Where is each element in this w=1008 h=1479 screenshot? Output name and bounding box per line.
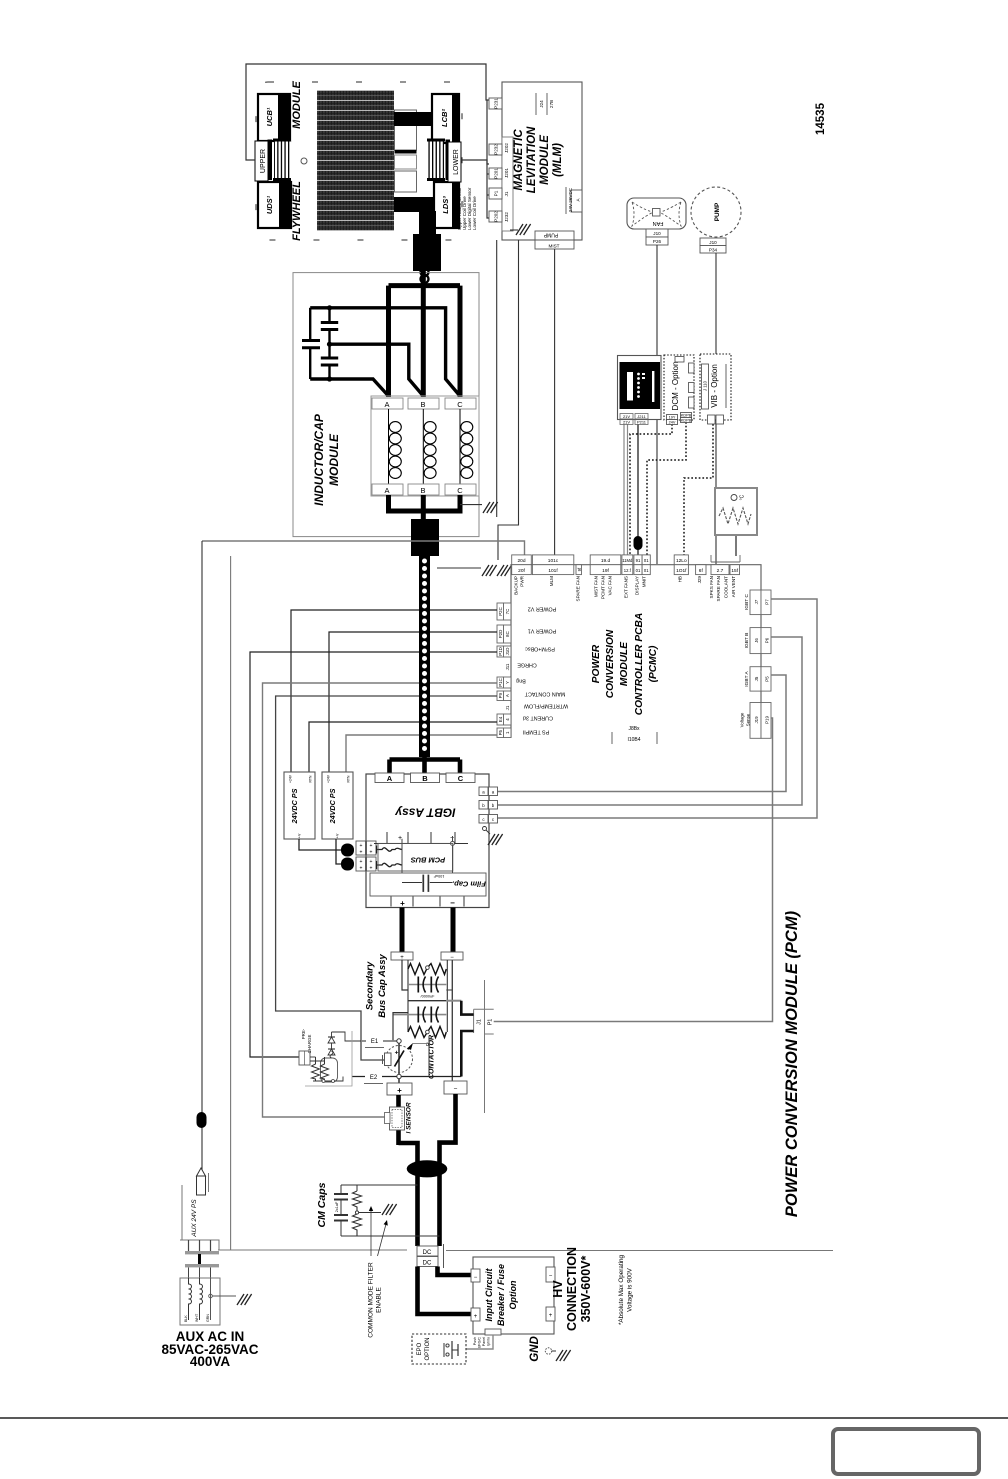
terminal + right [546,1307,555,1321]
gate connector pair a [479,787,498,796]
wire: 24VDC PS1 return [309,722,497,772]
trunk connector block [413,234,441,271]
svg-text:PUMP: PUMP [543,232,558,238]
terminal - right [546,1267,555,1282]
breaker aux pin [485,1329,501,1335]
svg-text:LCB²: LCB² [440,109,449,127]
wire: pump to PCMC [715,253,717,564]
svg-text:P1: P1 [487,1019,493,1026]
DC connector boxes [417,1246,438,1256]
gate connector pair c [479,815,498,824]
right stub IGBT A [750,667,771,691]
svg-text:°C: °C [740,494,746,500]
inline connector blob (display wire) [634,536,643,550]
filter terminal labels [184,1313,210,1322]
wire: UPPER sensor to MLM J231 (top route) [246,64,489,160]
svg-text:BACKUP: BACKUP [514,576,519,595]
24V input connector pair 2 [356,857,376,871]
svg-text:01: 01 [644,568,649,573]
svg-text:WHT: WHT [195,1313,199,1322]
svg-text:KDPB: KDPB [681,419,692,423]
svg-text:E4: E4 [498,716,503,722]
wire: aux pin to EPO [466,1335,493,1349]
svg-text:MODULE: MODULE [327,433,341,486]
top stub J11M [622,555,633,575]
chain link top [421,268,429,276]
MLM box [502,82,582,240]
MLM internal connector column [502,137,513,231]
svg-text:Voltage: Voltage [740,712,745,727]
wire: contactor feed [398,1041,400,1083]
top stub J19 [590,555,621,575]
wire: MLM pump box to PCMC [554,249,556,555]
svg-text:+24V: +24V [289,774,293,783]
svg-text:7C: 7C [505,609,510,615]
svg-text:24VDC PS: 24VDC PS [328,788,337,824]
output terminal + [387,1083,412,1095]
svg-text:J202: J202 [504,143,509,153]
svg-text:+: + [400,899,405,908]
svg-text:−: − [474,1275,478,1281]
E2 stub [352,1076,461,1078]
left stub P1D (precharge) [497,646,511,657]
svg-text:PCM BUS: PCM BUS [411,856,446,865]
svg-text:24V: 24V [669,421,676,425]
svg-text:J11: J11 [505,663,510,670]
cap bank row2 C4 [431,1007,438,1023]
svg-text:101c: 101c [548,558,559,564]
wire: contactor coil drive [276,696,497,1060]
contactor (dashed circle with blade) [386,1046,413,1073]
svg-text:(PCMC): (PCMC) [648,645,659,682]
wire: thermistor to PCMC [735,535,737,556]
cap bank row2 leads [393,1014,446,1016]
wire: phase A to output block [389,495,425,511]
mid rail [408,1000,446,1002]
bus terminal - [441,952,463,960]
bus rail right [446,960,448,1032]
display panel [620,362,661,409]
svg-text:P5: P5 [498,729,503,735]
svg-text:01: 01 [644,558,649,563]
svg-text:SPARE FAN: SPARE FAN [576,576,581,601]
svg-text:PWR: PWR [520,575,525,586]
svg-text:12.f: 12.f [624,568,632,573]
EPO switch [443,1343,445,1357]
MLM stub P201 [489,168,502,179]
display connector stubs [620,414,648,425]
svg-text:PS²M+OBsc: PS²M+OBsc [525,645,555,651]
svg-text:AIR VENT: AIR VENT [731,576,736,597]
svg-text:J24: J24 [539,100,544,108]
plug bar [185,1264,219,1267]
wire: DC- down to breaker [438,1267,474,1276]
contactor coil terminal [385,1053,392,1066]
svg-text:IGBT B: IGBT B [744,633,750,649]
MLM stub P202 [489,211,502,222]
svg-text:P2C: P2C [498,607,503,616]
svg-text:+: + [360,859,363,865]
wire: - output down [440,1094,456,1246]
leader arrows [370,1210,372,1256]
svg-text:21V: 21V [623,420,630,425]
rotor shaft frame lower [395,171,417,192]
svg-text:J1: J1 [504,191,509,196]
rotor shaft mid bar [395,150,417,154]
footer page box [833,1429,979,1474]
UPPER sensor connector label box [255,141,268,181]
right stub IGBT C [750,590,771,615]
svg-text:E1: E1 [371,1039,379,1045]
svg-text:P7: P7 [764,599,769,605]
left stub P9 (contactor) [497,691,511,701]
svg-text:P201: P201 [494,168,499,179]
cm cap column [334,1185,348,1236]
UPPER pin stripes [268,140,273,181]
svg-text:MODULE: MODULE [539,135,551,185]
svg-text:+: + [395,1050,399,1057]
lower coil bus bar (to LDS) [394,197,436,212]
cord pins [188,1268,190,1279]
cap bank row1 leads [408,984,446,986]
svg-text:−: − [450,955,454,961]
svg-text:PRE-: PRE- [301,1028,306,1039]
line filter box [180,1278,220,1325]
bus terminal + [391,952,413,960]
terminal A top [372,398,403,409]
svg-text:RTN: RTN [309,775,313,782]
precharge frame [305,1031,352,1086]
svg-text:CONTACTOR: CONTACTOR [429,1035,436,1079]
svg-text:J6: J6 [754,638,759,643]
svg-text:6f: 6f [699,568,704,574]
svg-text:Y: Y [505,681,510,684]
precharge relay outline [321,1058,338,1082]
svg-text:J10: J10 [653,231,661,236]
wire: precharge drive [250,652,497,1057]
capacitor C1 [321,308,338,344]
wire: DC+ down to breaker [418,1267,474,1315]
wire: DCM option dotted 1 [630,424,672,555]
svg-text:COOLANT: COOLANT [724,576,729,598]
bleed resistor R2a/R2b [408,1027,427,1038]
svg-text:PS TEMPII: PS TEMPII [523,728,550,734]
3-phase shielded cable (overlay redraw) [419,556,430,757]
svg-text:MNIT: MNIT [642,576,647,587]
LOWER pin stripes [446,140,451,181]
film cap board [370,873,486,896]
MLM top-right bracket J24 [535,93,537,115]
svg-text:Option: Option [508,1280,518,1309]
wire: + terminal to bank [402,960,408,991]
svg-text:−: − [450,899,455,908]
breaker box [473,1257,554,1334]
wire: VIB option dotted [684,424,713,555]
svg-text:J5: J5 [754,676,759,681]
phase terminal B [411,773,440,783]
svg-text:14535: 14535 [815,102,827,135]
terminal B top [408,398,439,409]
3-phase shielded cable (chain) [419,556,430,757]
wire: I sensor signal (gray) [263,683,498,1117]
wire: AUX 24V PS to PCMC (gray) [202,541,525,555]
display side bar [652,371,654,402]
terminal B bottom [408,484,439,495]
wire: cable split to IGBT A/B/C [390,757,461,762]
svg-text:24VDC PS: 24VDC PS [290,788,299,824]
gnd lug [545,1348,551,1354]
bottom bus ticks [390,897,392,907]
svg-text:21V: 21V [623,414,630,419]
svg-text:27B: 27B [549,100,554,108]
svg-text:P9: P9 [498,692,503,698]
svg-text:UCB¹: UCB¹ [265,107,274,126]
top stub J2A with bracket [710,555,712,562]
svg-text:(MLM): (MLM) [552,143,564,177]
svg-text:UDS¹: UDS¹ [265,195,274,214]
svg-text:MODULE: MODULE [291,81,303,129]
svg-text:DC: DC [423,1250,432,1256]
wire: fan to PCMC [656,245,658,564]
connector UCB1 [258,94,290,141]
svg-text:100uF: 100uF [433,874,444,878]
bus rail left [407,960,409,1032]
top stub J91 [634,555,650,575]
wire: MLM chassis drop A [496,240,498,517]
precharge diodes [331,1032,333,1051]
svg-text:KDPB: KDPB [681,414,692,418]
display LED dots [637,373,645,398]
svg-text:E2: E2 [370,1075,378,1081]
svg-text:P34: P34 [709,248,718,253]
top stub J9H [696,565,706,575]
DC bus bar [374,843,468,845]
IGBT chassis ground [483,827,487,831]
chassis ground C [497,565,512,576]
inductor bank frame [371,396,479,496]
24V input connector pair 1 [356,841,376,855]
top stub J101 [532,555,573,575]
svg-text:Film Cap.: Film Cap. [452,880,486,889]
svg-text:Push: Push [473,1337,477,1345]
inline connector blob (aux) [197,1112,207,1128]
filter gnd lead [210,1278,212,1320]
flywheel rotor (hatched) [317,90,394,231]
wire: AUX 24V PS feed [201,541,203,1170]
svg-text:Panel: Panel [482,1337,486,1346]
inline connector blob PS2 [341,858,354,871]
svg-text:B: B [420,486,425,495]
svg-text:+: + [370,850,373,856]
svg-text:J1: J1 [505,705,510,710]
wire: MLM chassis drop to ground [498,240,519,560]
svg-text:GND: GND [529,1336,541,1362]
svg-text:POWER: POWER [591,644,602,683]
precharge bottom rail [313,1077,343,1082]
wire: block to chassis ground B [437,567,481,569]
left stub E4 [497,714,511,725]
svg-text:C: C [457,486,463,495]
E1 stub [361,1040,399,1042]
svg-text:SPKS FAN: SPKS FAN [709,576,714,598]
pump connector stubs [700,238,726,246]
flywheel output trunk [419,211,436,237]
svg-text:+V: +V [336,833,340,838]
svg-text:19Y: 19Y [669,416,676,420]
svg-text:+: + [360,866,363,872]
fan blades [632,202,654,226]
cap bank row1 C1 [418,977,425,993]
left stub P2C (POWER V2) [497,603,511,620]
svg-text:Bng: Bng [516,677,526,683]
svg-text:+: + [397,1086,402,1095]
svg-text:*Absolute Max Operating: *Absolute Max Operating [618,1255,625,1326]
svg-text:BLK: BLK [184,1315,188,1322]
capacitor C3 [321,344,338,379]
PCM BUS board [378,843,453,871]
display LCD strip [627,372,633,401]
svg-text:P5: P5 [764,676,769,682]
svg-text:P211: P211 [637,420,647,425]
wire: 3-phase split from flywheel trunk [389,283,461,288]
MLM stub P231 [489,98,502,109]
wire: phase B drop [421,271,426,397]
wire: phase B to output block [421,495,426,522]
svg-text:FLYWHEEL: FLYWHEEL [291,181,303,241]
svg-text:J29: J29 [697,576,702,584]
chassis ground stub (module) [460,504,482,506]
svg-text:+V: +V [298,833,302,838]
wire: diode top to E1 line [332,1032,362,1041]
MLM internal ground [516,224,531,235]
svg-text:+: + [370,859,373,865]
svg-text:Bus Cap Assy: Bus Cap Assy [377,954,388,1018]
inductor L-C [459,409,461,484]
VIB bottom stubs [708,415,716,424]
display module outer [618,356,662,420]
rotor shaft frame mid [395,155,417,169]
wire: 24VDC PS2 return (gray) [346,735,497,772]
AUX 24V PS plug (arrow) [197,1168,206,1176]
svg-text:FAN: FAN [653,220,664,226]
capacitor C2 (in left rail) [302,308,320,379]
svg-text:+: + [360,850,363,856]
output terminal - [444,1081,467,1094]
svg-text:01: 01 [636,568,641,573]
svg-text:A: A [384,486,389,495]
svg-text:/0000uF: /0000uF [421,994,436,998]
cable bundle ferrite [407,1160,448,1177]
bleed resistor R1a/R1b [408,964,427,975]
terminal C top [445,398,476,409]
svg-text:Input Circuit: Input Circuit [484,1268,494,1322]
svg-text:J 110: J 110 [703,380,708,391]
svg-text:I10B4: I10B4 [627,737,640,743]
svg-text:12Lo: 12Lo [676,558,687,564]
contactor actuate arrow [413,1043,428,1045]
top stub J20 [512,555,532,575]
upper coil bus bar (to LCB) [394,112,433,126]
connector LCB2 [432,94,459,143]
svg-text:A: A [505,694,510,697]
svg-text:CURENT 3d: CURENT 3d [523,714,553,720]
MLM stub P232 [489,144,502,155]
wire: - to output [451,960,453,1081]
rotor shaft frame upper [395,110,417,150]
PCM enclosure bottom edge left [218,1249,407,1251]
PCM enclosure left edge [230,556,232,1250]
svg-text:B: B [422,774,428,783]
svg-text:J7: J7 [754,599,759,604]
svg-text:IGBT C: IGBT C [744,594,750,610]
precharge resistor Rb [321,1057,329,1081]
svg-text:J10: J10 [709,240,717,245]
wire: DCM option dotted 2 [647,422,686,555]
svg-text:+: + [398,835,402,842]
connector LDS3 [434,182,459,228]
svg-text:I SENSOR: I SENSOR [406,1102,413,1133]
svg-text:OPTION: OPTION [425,1337,431,1360]
svg-text:EPO: EPO [417,1342,423,1355]
svg-text:COMMON MODE FILTER: COMMON MODE FILTER [368,1262,375,1338]
svg-text:Breaker / Fuse: Breaker / Fuse [496,1264,506,1326]
MLM right bracket 26VDC [571,190,582,212]
svg-text:A: A [384,400,389,409]
MLM pump connector box [535,231,574,249]
svg-text:P232: P232 [494,144,499,155]
svg-text:ENABLE: ENABLE [376,1287,383,1313]
svg-text:15f: 15f [731,568,738,574]
svg-text:C: C [457,400,463,409]
svg-text:19f: 19f [602,568,609,574]
svg-text:P6: P6 [764,637,769,643]
svg-text:DC: DC [423,1261,432,1267]
svg-text:19.d: 19.d [601,558,611,564]
IGBT assy box [366,774,489,908]
svg-text:LEVITATION: LEVITATION [526,126,538,193]
wire: PS2 output [336,839,344,864]
gate connector pair b [479,801,498,810]
svg-text:P231: P231 [494,98,499,109]
svg-text:DCM - Option: DCM - Option [671,362,680,411]
svg-text:J232: J232 [504,212,509,222]
svg-text:CONVERSION: CONVERSION [605,629,616,698]
cm resistor column [353,1185,362,1236]
wire: MLM stub bus [487,100,489,218]
cm bottom rail [341,1235,440,1237]
24VDC PS box 1 [284,772,315,839]
fan body [627,198,686,229]
DC bus verticals [401,839,403,883]
svg-text:LDS³: LDS³ [441,196,450,214]
output connector block [411,519,439,556]
right stub IGBT B [750,628,771,654]
capacitor bank: bottom rail [310,379,388,396]
svg-text:HB: HB [678,576,683,582]
I SENSOR box [390,1107,405,1130]
wire: POWER V1 to 24VDC PS 2 [329,632,497,772]
left stub P1C (I sensor, gray) [497,677,511,688]
cm ground tap [359,1212,382,1214]
filter inductor L [189,1278,192,1320]
svg-text:P1D: P1D [498,647,503,656]
svg-text:B: B [420,400,425,409]
svg-text:101f: 101f [548,568,558,574]
svg-text:C: C [458,774,464,783]
film capacitor [402,882,422,884]
precharge resistor Ra [312,1057,320,1081]
svg-text:P1: P1 [494,190,499,196]
